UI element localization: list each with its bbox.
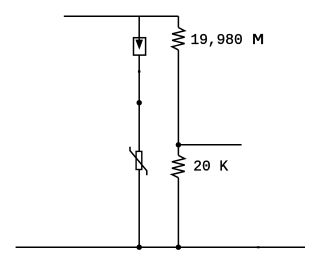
wire: right branch vertical top segment xyxy=(177,16,179,27)
node: right branch bottom junction dot xyxy=(176,245,181,250)
diode (arrow-in-box rectifier symbol) xyxy=(134,38,146,55)
node: tap junction dot xyxy=(176,142,181,147)
wire: right branch vertical middle segment xyxy=(177,50,179,155)
node: small solder blob on bottom bus xyxy=(256,246,260,248)
wire: top supply bus xyxy=(64,15,179,17)
node: left branch bottom junction dot xyxy=(137,245,142,250)
svg-text:M: M xyxy=(252,33,264,49)
wire: output tap to the right xyxy=(178,144,241,146)
node: tiny solder nub on left branch wire xyxy=(138,70,141,73)
wire: right branch vertical bottom segment xyxy=(177,178,179,248)
node: junction dot on left branch xyxy=(137,100,142,105)
resistor 20 K (zigzag) xyxy=(172,155,185,177)
svg-text:19,980: 19,980 xyxy=(191,33,243,49)
varistor (rectangle with hooked diagonal) xyxy=(130,147,147,175)
resistor 19,980 M (zigzag) xyxy=(172,28,185,50)
wire: left branch vertical (top bus to bottom bus) xyxy=(138,16,140,247)
wire: bottom return bus xyxy=(16,246,305,248)
svg-text:20 K: 20 K xyxy=(193,160,228,176)
